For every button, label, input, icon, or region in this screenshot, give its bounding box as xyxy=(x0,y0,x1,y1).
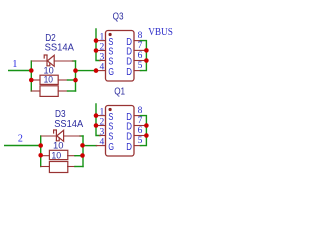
resistor upper (10, D3 block) left lead xyxy=(41,155,50,157)
svg-text:Q1: Q1 xyxy=(114,86,125,97)
diode D2 cathode lead xyxy=(54,60,73,62)
resistor upper (10) right lead xyxy=(58,79,68,81)
wire Q1 left bracket (pins 1-2-3) xyxy=(96,104,100,136)
Q1 pin 6 stub xyxy=(134,135,144,137)
wire D2 block output to Q3 pin 4 xyxy=(76,70,97,72)
wire Q1 right bracket (pins 8-7-6-5) xyxy=(141,116,147,146)
svg-text:SS14A: SS14A xyxy=(45,43,75,54)
pin-1 marker dot Q3 xyxy=(109,33,112,36)
svg-text:5: 5 xyxy=(138,61,143,71)
Q3 pin 3 stub xyxy=(100,60,106,62)
wire diode D2 row to right vertical xyxy=(73,60,76,62)
wire resistor lower to right vertical xyxy=(68,90,76,92)
junction Q3 pin 4 / gate wire xyxy=(94,68,99,73)
junction left vertical / upper resistor xyxy=(29,78,34,83)
wire D2 block right vertical xyxy=(75,61,77,91)
junction Q3 pin 6 / VBUS bracket xyxy=(144,58,149,63)
svg-text:1: 1 xyxy=(100,107,105,117)
svg-text:4: 4 xyxy=(100,137,105,147)
Q1 pin 5 stub xyxy=(134,145,141,147)
resistor lower (D3 block) body xyxy=(49,162,67,173)
Q3 pin 7 stub xyxy=(134,49,144,51)
wire D2 block left vertical xyxy=(30,61,32,91)
Q3 pin 4 stub xyxy=(96,70,106,72)
junction Q3 pin 1 / left bracket xyxy=(94,38,99,43)
Q3 pin 1 stub xyxy=(96,40,106,42)
junction Q3 pin 7 / VBUS bracket xyxy=(144,48,149,53)
svg-text:10: 10 xyxy=(51,149,61,160)
svg-text:7: 7 xyxy=(138,116,143,126)
wire Q3 right bracket VBUS (pins 8-7-6-5) xyxy=(141,41,147,71)
Q1 pin 8 stub xyxy=(134,115,141,117)
junction Q1 pin 6 / right bracket xyxy=(144,133,149,138)
junction left vertical / net-1 input xyxy=(29,68,34,73)
svg-text:4: 4 xyxy=(100,62,105,72)
svg-text:Q3: Q3 xyxy=(113,11,124,22)
wire net-2 input horizontal xyxy=(5,145,41,147)
junction Q1 pin 2 / left bracket xyxy=(94,123,99,128)
resistor lower body xyxy=(40,86,58,97)
Q1 pin 3 stub xyxy=(100,135,106,137)
resistor lower (10) right lead xyxy=(58,90,68,92)
wire D3 block output to Q1 pin 4 xyxy=(83,145,97,147)
resistor lower (10) left lead xyxy=(31,90,40,92)
transistor Q1 body (SO-8 MOSFET) xyxy=(106,106,135,157)
wire resistor upper to right vertical (D3 block) xyxy=(75,155,83,157)
svg-text:SS14A: SS14A xyxy=(54,119,83,130)
Q3 pin 2 stub xyxy=(96,50,106,52)
svg-text:7: 7 xyxy=(138,41,143,51)
resistor lower (D3 block) left lead xyxy=(41,166,50,168)
svg-text:D: D xyxy=(126,67,132,78)
Q1 pin 2 stub xyxy=(96,125,106,127)
svg-text:2: 2 xyxy=(18,133,23,144)
wire diode D3 row to right vertical xyxy=(80,135,83,137)
svg-text:2: 2 xyxy=(100,117,105,127)
junction Q1 pin 1 / left bracket xyxy=(94,113,99,118)
svg-text:8: 8 xyxy=(138,106,143,116)
junction Q1 pin 7 / right bracket xyxy=(144,123,149,128)
junction right vertical / output wire xyxy=(73,68,78,73)
Q1 pin 1 stub xyxy=(96,115,106,117)
svg-text:5: 5 xyxy=(138,136,143,146)
resistor lower (D3 block) right lead xyxy=(68,166,76,168)
junction Q3 pin 2 / left bracket xyxy=(94,48,99,53)
resistor upper (10) body xyxy=(40,75,58,84)
pin-1 marker dot Q1 xyxy=(109,108,112,111)
diode D3 (Schottky) symbol xyxy=(54,130,64,141)
Q1 pin 4 stub xyxy=(96,145,105,147)
transistor Q3 body (SO-8 MOSFET) xyxy=(106,31,135,82)
svg-text:1: 1 xyxy=(100,32,105,42)
wire net-1 input horizontal xyxy=(9,70,32,72)
Q3 pin 5 stub xyxy=(134,70,141,72)
diode D3 anode lead xyxy=(41,135,56,137)
svg-text:3: 3 xyxy=(100,52,105,62)
junction right vertical / upper resistor (D3 block) xyxy=(80,153,85,158)
junction right vertical / upper resistor xyxy=(73,78,78,83)
svg-text:G: G xyxy=(108,142,114,153)
svg-text:8: 8 xyxy=(138,31,143,41)
svg-text:6: 6 xyxy=(138,126,143,136)
svg-text:1: 1 xyxy=(12,59,17,70)
svg-text:6: 6 xyxy=(138,51,143,61)
wire resistor upper to right vertical xyxy=(68,79,76,81)
svg-text:2: 2 xyxy=(100,42,105,52)
diode D2 (Schottky) symbol xyxy=(44,55,54,66)
wire D3 block right vertical xyxy=(82,136,84,167)
svg-text:10: 10 xyxy=(44,74,53,85)
junction left vertical / net-2 input xyxy=(38,143,43,148)
diode D2 anode lead xyxy=(32,60,47,62)
svg-text:D: D xyxy=(126,142,132,153)
svg-text:G: G xyxy=(108,67,114,78)
wire resistor lower to right vertical (D3 block) xyxy=(75,166,83,168)
diode D3 cathode lead xyxy=(64,135,81,137)
Q3 pin 8 stub xyxy=(134,40,141,42)
svg-text:VBUS: VBUS xyxy=(148,27,173,38)
svg-text:3: 3 xyxy=(100,127,105,137)
wire Q3 left bracket (pins 1-2-3) xyxy=(96,29,100,61)
junction right vertical / output wire (D3 block) xyxy=(80,143,85,148)
Q3 pin 6 stub xyxy=(134,60,144,62)
resistor upper (10, D3 block) right lead xyxy=(68,155,76,157)
wire D3 block left vertical xyxy=(40,136,42,167)
resistor upper (10, D3 block) body xyxy=(49,150,67,159)
junction left vertical / upper resistor (D3 block) xyxy=(38,153,43,158)
resistor upper (10) left lead xyxy=(31,79,40,81)
Q1 pin 7 stub xyxy=(134,125,144,127)
